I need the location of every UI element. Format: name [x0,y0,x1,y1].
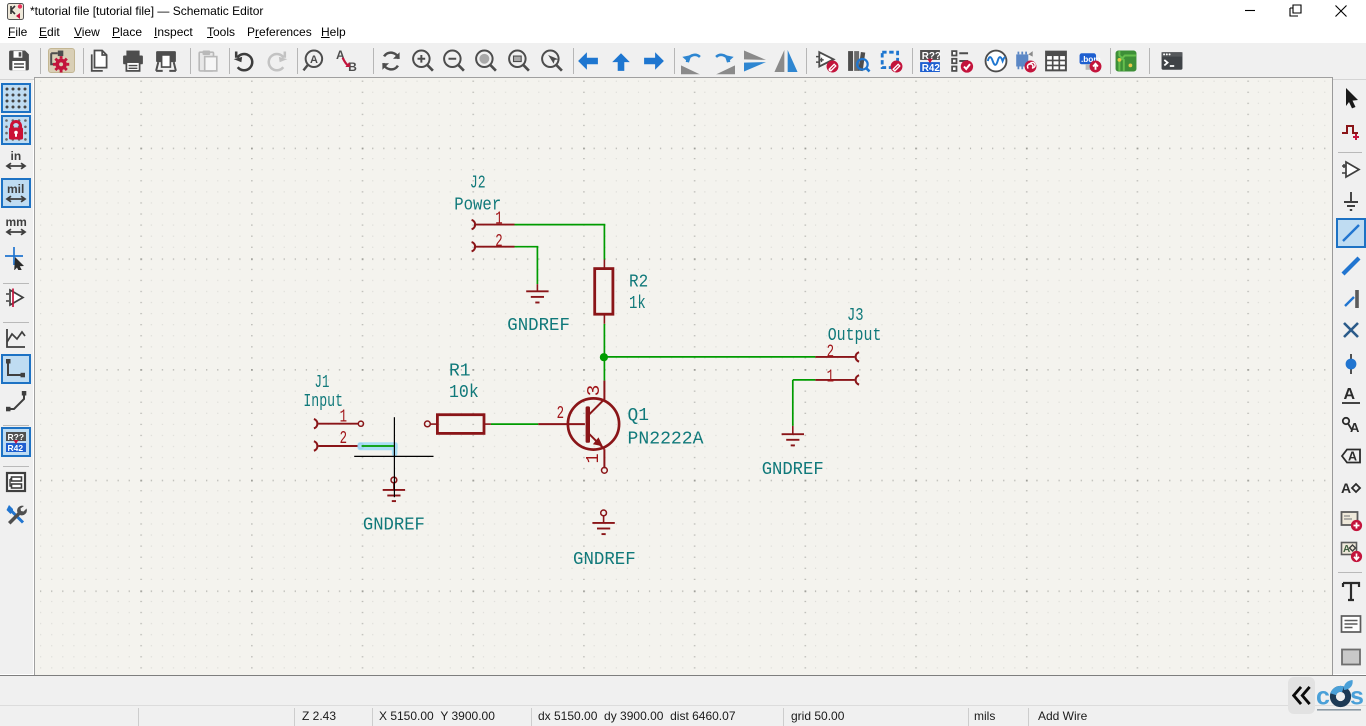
svg-text:1: 1 [584,453,604,463]
svg-text:A: A [1344,386,1356,403]
svg-text:Power: Power [454,195,501,215]
svg-text:Input: Input [303,392,343,412]
svg-text:2: 2 [557,404,564,424]
svg-text:A: A [1350,420,1360,435]
svg-text:R1: R1 [449,361,471,381]
svg-text:1k: 1k [629,294,646,314]
svg-text:c: c [1316,683,1330,711]
svg-text:1: 1 [827,367,834,387]
svg-text:mil: mil [7,182,24,196]
svg-text:R42: R42 [922,63,941,74]
svg-text:GNDREF: GNDREF [762,460,824,480]
svg-text:J2: J2 [470,174,486,194]
svg-text:3: 3 [585,385,605,397]
svg-text:J3: J3 [847,306,864,326]
svg-text:Q1: Q1 [628,406,650,426]
svg-text:mm: mm [6,215,27,229]
svg-text:s: s [1350,683,1364,711]
svg-text:A: A [1348,450,1357,464]
svg-text:J1: J1 [315,373,330,393]
svg-text:A: A [1341,480,1351,496]
svg-text:10k: 10k [449,383,479,403]
svg-text:GNDREF: GNDREF [363,515,425,535]
svg-text:GNDREF: GNDREF [573,550,636,570]
svg-text:in: in [11,149,22,163]
svg-text:Output: Output [828,326,882,346]
svg-text:R2: R2 [629,272,648,292]
svg-text:A: A [1343,544,1350,555]
svg-text:2: 2 [340,429,347,449]
svg-text:2: 2 [495,232,502,252]
svg-text:A: A [310,54,318,66]
svg-text:R42: R42 [8,443,24,453]
svg-text:PN2222A: PN2222A [628,429,704,449]
svg-text:GNDREF: GNDREF [507,316,570,336]
